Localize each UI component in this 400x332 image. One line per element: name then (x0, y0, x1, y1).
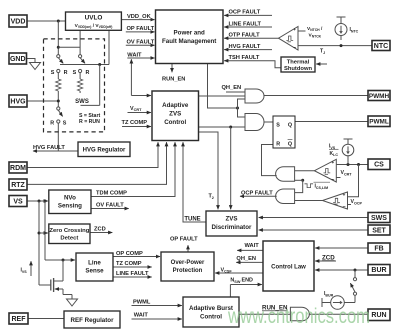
svg-text:Adaptive: Adaptive (162, 102, 189, 109)
svg-text:Sensing: Sensing (58, 203, 82, 210)
svg-text:Sense: Sense (85, 268, 104, 275)
svg-text:HVG FAULT: HVG FAULT (229, 44, 261, 50)
svg-text:−: − (293, 45, 296, 51)
svg-text:R = RUN: R = RUN (79, 119, 100, 125)
svg-text:ZVS: ZVS (225, 216, 237, 223)
svg-text:OP COMP: OP COMP (116, 251, 143, 257)
svg-text:S: S (51, 70, 55, 76)
svg-text:R: R (50, 120, 54, 126)
svg-text:SET: SET (372, 227, 386, 234)
svg-text:TSH FAULT: TSH FAULT (229, 55, 260, 61)
svg-text:+: + (331, 160, 334, 165)
svg-text:RDM: RDM (10, 165, 26, 172)
svg-text:R: R (276, 141, 280, 147)
svg-text:ZCD: ZCD (94, 226, 106, 232)
svg-text:SWS: SWS (75, 99, 89, 105)
svg-text:Over-Power: Over-Power (171, 260, 205, 266)
svg-text:+: + (343, 193, 346, 198)
svg-text:Control: Control (164, 119, 186, 126)
svg-text:HVG Regulator: HVG Regulator (83, 148, 126, 154)
svg-text:WAIT: WAIT (127, 52, 142, 58)
svg-text:VDD: VDD (11, 18, 26, 25)
svg-text:Discriminator: Discriminator (212, 224, 252, 231)
svg-text:−: − (331, 177, 334, 183)
svg-text:BUR: BUR (371, 267, 386, 274)
svg-text:OV FAULT: OV FAULT (127, 40, 155, 46)
svg-text:S = Start: S = Start (79, 113, 100, 119)
svg-text:OP FAULT: OP FAULT (170, 236, 198, 242)
svg-text:ZCD: ZCD (322, 254, 335, 261)
svg-text:−: − (342, 204, 345, 210)
svg-text:PWMH: PWMH (369, 93, 390, 100)
svg-text:R: R (64, 70, 68, 76)
svg-text:TZ COMP: TZ COMP (116, 261, 142, 267)
svg-text:Power and: Power and (174, 30, 206, 37)
svg-text:UVLO: UVLO (85, 15, 103, 22)
svg-text:GND: GND (10, 56, 26, 63)
svg-text:Detect: Detect (60, 236, 78, 242)
svg-text:VS: VS (13, 198, 23, 205)
svg-text:RUN: RUN (371, 312, 386, 319)
svg-text:OTP FAULT: OTP FAULT (229, 33, 261, 39)
svg-text:LINE FAULT: LINE FAULT (116, 271, 149, 277)
svg-text:WAIT: WAIT (245, 243, 260, 249)
svg-text:S: S (73, 70, 77, 76)
svg-text:Q: Q (288, 123, 292, 129)
svg-text:+: + (293, 27, 296, 32)
svg-text:Q: Q (288, 141, 292, 147)
svg-text:QH_EN: QH_EN (236, 256, 256, 262)
svg-text:www.cntronics.com: www.cntronics.com (227, 305, 370, 328)
svg-text:NTC: NTC (374, 43, 388, 50)
svg-text:LINE FAULT: LINE FAULT (229, 21, 262, 27)
svg-text:HVG: HVG (10, 98, 26, 105)
svg-text:Zero Crossing: Zero Crossing (49, 228, 89, 234)
svg-text:Shutdown: Shutdown (284, 66, 312, 72)
svg-text:OCP FAULT: OCP FAULT (241, 190, 273, 196)
svg-text:REF Regulator: REF Regulator (71, 317, 115, 324)
svg-text:OV FAULT: OV FAULT (96, 202, 124, 208)
svg-text:HVG FAULT: HVG FAULT (33, 145, 65, 151)
svg-text:REF: REF (12, 316, 27, 323)
svg-text:TZ COMP: TZ COMP (122, 120, 148, 126)
svg-text:Fault Management: Fault Management (162, 38, 216, 45)
svg-text:TDM COMP: TDM COMP (96, 190, 127, 196)
svg-text:Control Law: Control Law (271, 265, 306, 271)
svg-text:QH_EN: QH_EN (222, 85, 242, 91)
svg-text:VDD_OK: VDD_OK (127, 14, 152, 20)
svg-text:PWML: PWML (133, 300, 151, 306)
svg-text:Adaptive Burst: Adaptive Burst (189, 305, 233, 312)
svg-text:OP FAULT: OP FAULT (127, 26, 155, 32)
svg-text:OCP FAULT: OCP FAULT (229, 10, 261, 16)
svg-text:Thermal: Thermal (287, 60, 310, 66)
svg-text:FB: FB (374, 245, 383, 252)
svg-text:RUN_EN: RUN_EN (162, 77, 185, 83)
svg-text:Control: Control (200, 314, 222, 321)
svg-text:R: R (85, 70, 89, 76)
svg-text:S: S (276, 123, 280, 129)
svg-text:WAIT: WAIT (134, 313, 149, 319)
svg-text:END: END (242, 278, 253, 284)
svg-text:S: S (63, 120, 67, 126)
svg-text:NVo: NVo (64, 195, 76, 202)
svg-text:SWS: SWS (371, 215, 387, 222)
svg-text:CS: CS (374, 162, 384, 169)
svg-text:Protection: Protection (173, 268, 203, 274)
svg-text:TUNE: TUNE (184, 217, 200, 223)
svg-text:RTZ: RTZ (11, 182, 25, 189)
svg-text:PWML: PWML (369, 119, 389, 126)
svg-text:Line: Line (88, 260, 101, 267)
svg-text:ZVS: ZVS (169, 111, 181, 118)
